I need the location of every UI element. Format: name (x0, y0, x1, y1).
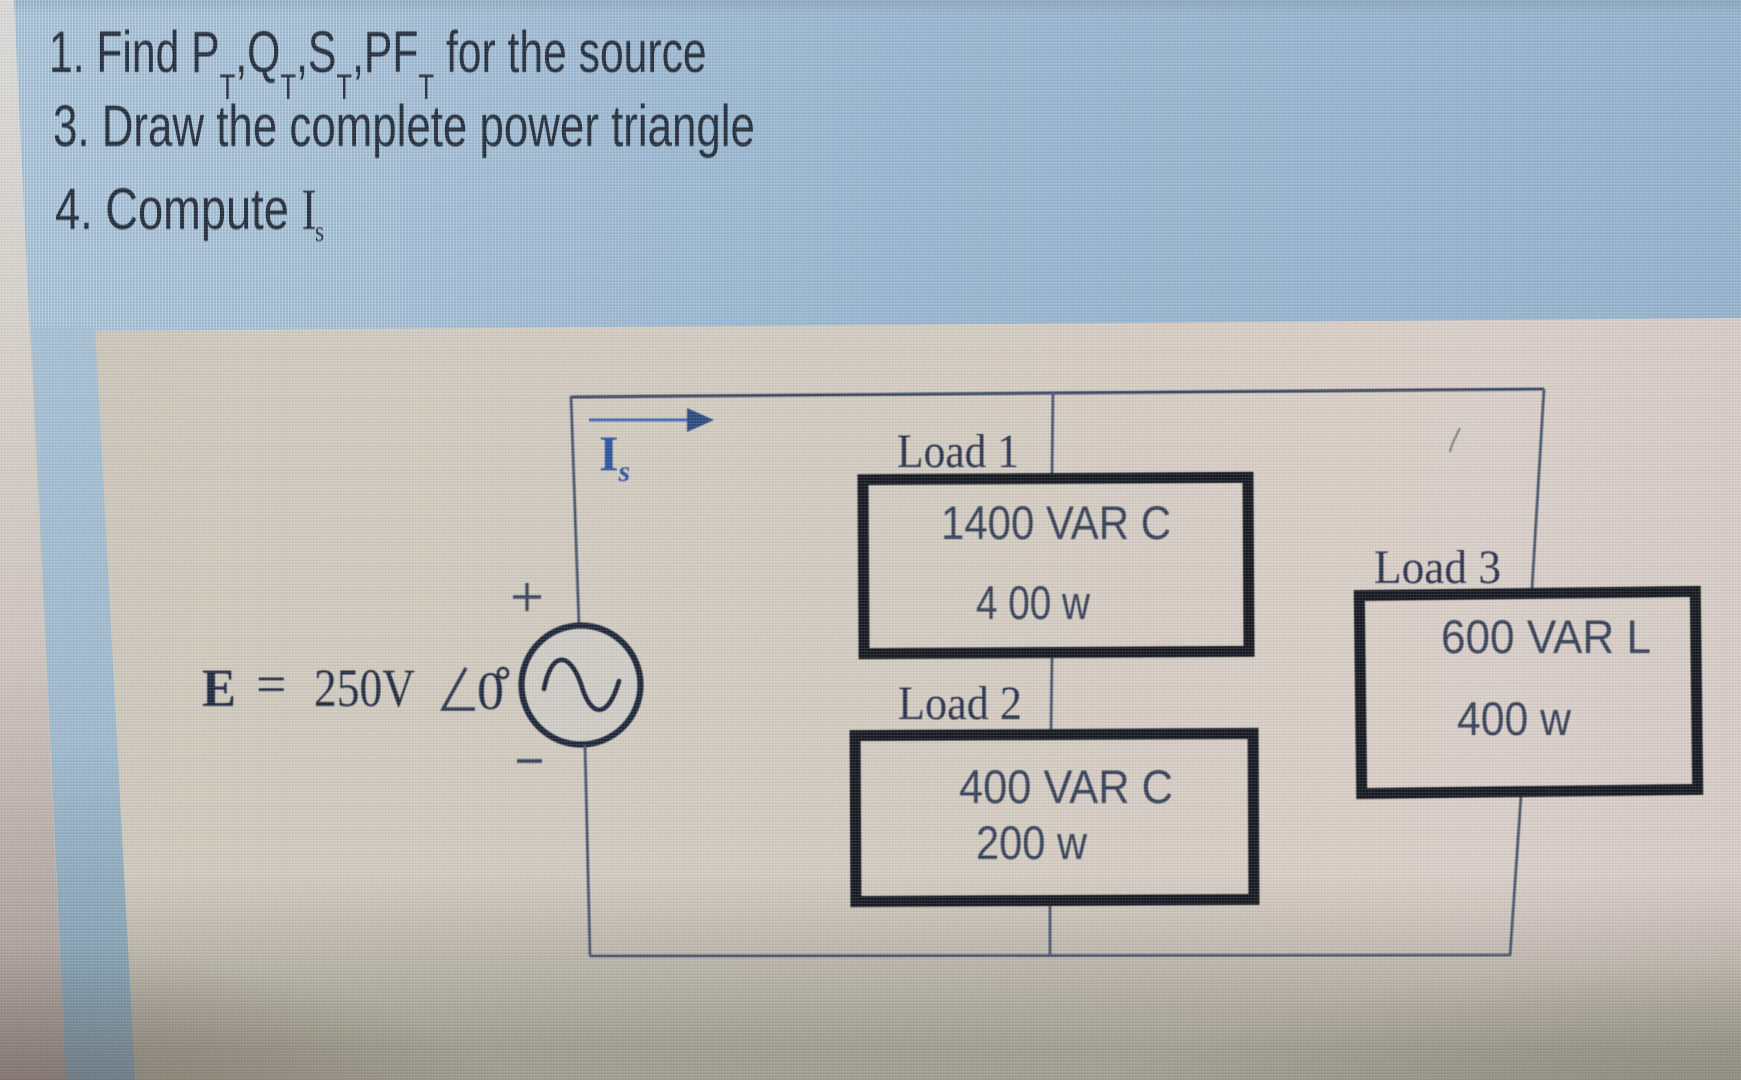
wire left branch upper (571, 396, 579, 626)
wire middle branch lower (1049, 904, 1052, 956)
stray pen mark (1450, 428, 1460, 452)
wire left branch lower (585, 745, 590, 956)
load 3 box (1359, 591, 1697, 793)
sine wave inside source (544, 660, 619, 710)
current arrow Is (589, 419, 690, 422)
angle symbol (443, 668, 475, 709)
load 1 box (863, 477, 1249, 653)
load 2 box (855, 733, 1254, 901)
plus polarity mark (513, 583, 541, 611)
wire middle branch upper (1052, 392, 1053, 474)
wire middle branch mid (1051, 657, 1052, 730)
voltage source E (522, 626, 641, 745)
wire bottom rail (590, 955, 1510, 956)
wire top rail (571, 389, 1544, 397)
wire right branch upper (1532, 389, 1544, 589)
minus polarity mark (517, 759, 542, 763)
wire right branch lower (1510, 796, 1521, 956)
